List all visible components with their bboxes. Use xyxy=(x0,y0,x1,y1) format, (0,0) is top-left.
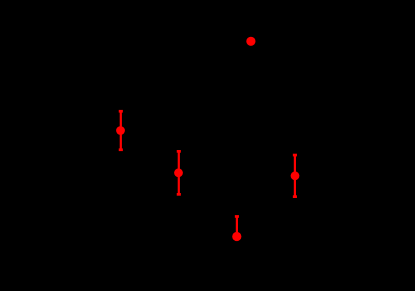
junction dot (node A, top center) xyxy=(246,37,255,46)
junction dot (node E, wire end) xyxy=(232,232,241,241)
wire end cap (net C bottom terminal) xyxy=(177,193,181,196)
junction dot (node B) xyxy=(116,126,125,135)
wire (highlighted net B, vertical segment) xyxy=(120,111,122,151)
wire (highlighted net C, vertical segment) xyxy=(178,151,180,196)
wire end cap (net B top terminal) xyxy=(119,110,123,113)
wire end cap (net C top terminal) xyxy=(177,150,181,153)
wire end cap (net B bottom terminal) xyxy=(119,148,123,151)
wire end cap (net D top terminal) xyxy=(293,154,297,157)
junction dot (node C) xyxy=(174,168,183,177)
wire end cap (net D bottom terminal) xyxy=(293,195,297,198)
wire (highlighted net E, vertical stub ending at junction) xyxy=(236,216,238,234)
wire (highlighted net D, vertical segment) xyxy=(294,154,296,197)
junction dot (node D) xyxy=(291,171,300,180)
wire end cap (net E top terminal) xyxy=(235,215,239,218)
